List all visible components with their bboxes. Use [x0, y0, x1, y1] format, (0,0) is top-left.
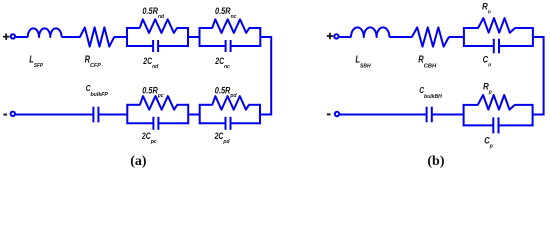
svg-text:(a): (a)	[130, 154, 147, 169]
svg-text:(b): (b)	[427, 154, 444, 169]
